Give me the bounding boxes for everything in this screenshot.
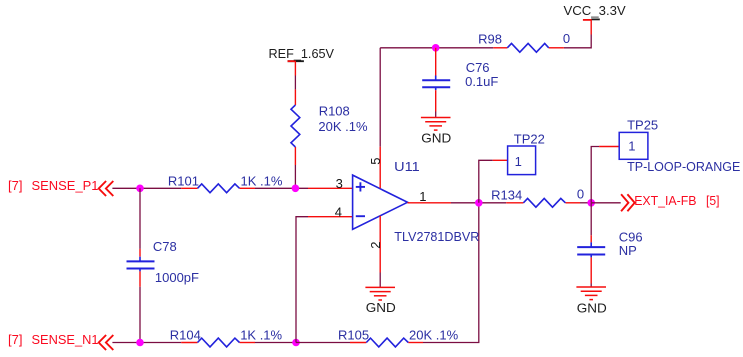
pin 2 stub [368,216,383,288]
svg-text:C76: C76 [466,60,490,75]
svg-text:4: 4 [335,204,342,219]
junction pin3 / R108 [292,185,300,193]
svg-text:SENSE_P1: SENSE_P1 [32,178,99,193]
resistor R105 [296,327,459,347]
wire to port EXT_IA-FB [591,202,621,204]
wire pin3 net [112,187,352,189]
junction bottom / pin4 column [292,339,300,347]
svg-text:TLV2781DBVR: TLV2781DBVR [394,229,479,244]
wire REF to R108 [294,76,296,90]
svg-text:REF_1.65V: REF_1.65V [269,46,335,61]
op-amp U11 [353,159,480,244]
junction output / TP22 / feedback [475,199,483,207]
capacitor C78 [127,188,200,342]
svg-text:GND: GND [577,301,607,316]
power symbol REF_1.65V [269,46,335,76]
svg-text:R134: R134 [491,187,522,202]
ground under C96 [576,287,606,316]
svg-text:3: 3 [336,176,343,191]
wire output net [408,202,507,204]
svg-text:1K .1%: 1K .1% [240,327,282,342]
svg-text:2: 2 [368,242,383,249]
svg-text:U11: U11 [394,159,420,174]
svg-text:[5]: [5] [706,193,720,208]
wire feedback vertical [423,203,479,343]
svg-text:TP22: TP22 [514,132,545,147]
svg-text:[7]: [7] [8,332,22,347]
resistor R108 [291,89,368,165]
svg-text:0.1uF: 0.1uF [465,74,498,89]
svg-text:1: 1 [419,189,426,204]
power symbol VCC_3.3V [564,3,627,35]
capacitor C96 [577,203,642,287]
svg-text:VCC_3.3V: VCC_3.3V [564,3,627,18]
wire pin4 net vertical [296,217,353,343]
resistor R98 [478,31,570,52]
svg-text:R104: R104 [170,327,201,342]
svg-text:TP-LOOP-ORANGE: TP-LOOP-ORANGE [627,159,741,174]
svg-text:1: 1 [515,154,522,169]
svg-text:R105: R105 [338,327,369,342]
junction output R134 / TP25 / C96 [587,199,595,207]
test point TP22 [479,132,545,203]
svg-text:[7]: [7] [8,178,22,193]
svg-text:TP25: TP25 [627,118,658,133]
svg-text:SENSE_N1: SENSE_N1 [32,332,99,347]
svg-text:1K .1%: 1K .1% [241,173,283,188]
port EXT_IA-FB [621,193,719,211]
wire top net (pin5 to C76 to R98) [380,47,493,49]
resistor R134 [491,186,591,207]
svg-text:0: 0 [563,31,570,46]
resistor R101 [168,173,283,192]
ground under C76 [421,118,451,146]
wire R108 to pin3 node [294,165,296,188]
resistor R104 [170,327,283,347]
junction SENSE_P1 / C78 [136,185,144,193]
junction SENSE_N1 / C78 [136,339,144,347]
svg-text:R101: R101 [168,173,199,188]
svg-text:20K .1%: 20K .1% [318,119,368,134]
pin 5 stub [368,147,383,189]
wire pin5 vertical [379,48,381,147]
svg-text:1000pF: 1000pF [155,270,199,285]
port SENSE_P1 [8,178,113,196]
svg-text:GND: GND [366,300,396,315]
svg-text:R108: R108 [319,104,350,119]
ground under pin 2 [365,287,395,315]
svg-text:EXT_IA-FB: EXT_IA-FB [634,193,696,208]
svg-text:20K .1%: 20K .1% [409,327,459,342]
test point TP25 [591,118,740,203]
svg-text:C78: C78 [153,239,177,254]
svg-text:5: 5 [368,158,383,165]
port SENSE_N1 [8,332,113,350]
junction top C76 node [432,44,440,52]
svg-text:R98: R98 [478,31,502,46]
wire VCC drop to R98 [564,35,591,48]
capacitor C76 [422,48,498,118]
wire bottom net SENSE_N1 [112,342,296,344]
svg-text:0: 0 [577,186,584,201]
svg-text:GND: GND [421,130,451,145]
svg-text:1: 1 [628,139,635,154]
svg-text:NP: NP [619,243,637,258]
